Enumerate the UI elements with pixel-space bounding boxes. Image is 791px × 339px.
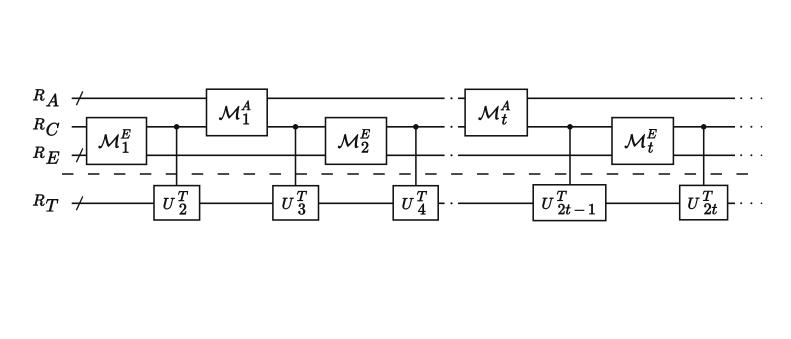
- gate label M1A: [219, 101, 250, 125]
- gate box M1A: [207, 89, 268, 136]
- gate box M1E: [87, 118, 147, 165]
- wire label R_E: [33, 147, 59, 164]
- gate label U2t1: [543, 191, 595, 214]
- control dot 2 on R_C: [293, 124, 299, 130]
- gate box U2t: [680, 185, 728, 219]
- wire label R_A: [33, 89, 58, 106]
- R_C wire trailing cdots: [740, 126, 742, 128]
- gate label U2: [164, 191, 188, 214]
- gate label M1E: [99, 129, 131, 152]
- control dot 4 on R_C: [567, 124, 573, 130]
- control line 1 (from R_C control dot down to target gate): [176, 127, 178, 186]
- gate label U2t: [688, 191, 716, 214]
- control line 3 (from R_C control dot down to target gate): [415, 127, 417, 186]
- R_T multi-qubit slash mark: [76, 196, 82, 210]
- control line 5 (from R_C control dot down to target gate): [703, 127, 705, 186]
- gate box U2t-1: [533, 185, 606, 221]
- R_C wire (left segment): [72, 126, 445, 128]
- R_A wire trailing cdots: [740, 97, 742, 99]
- control dot 1 on R_C: [174, 124, 180, 130]
- R_C wire mid-ellipsis dot: [450, 126, 452, 128]
- R_E wire mid-ellipsis dot: [450, 154, 452, 156]
- R_T wire mid-ellipsis dot: [450, 202, 452, 204]
- gate label U4: [403, 191, 427, 214]
- R_T wire (right segment): [458, 202, 735, 204]
- R_E multi-qubit slash mark: [76, 148, 82, 162]
- R_T wire (left segment): [72, 202, 445, 204]
- R_A wire mid-ellipsis dot: [450, 97, 452, 99]
- R_E wire (right segment): [458, 154, 735, 156]
- R_C wire (right segment): [458, 126, 735, 128]
- control line 4 (from R_C control dot down to target gate): [569, 127, 571, 185]
- gate box MtE: [612, 118, 673, 165]
- control dot 5 on R_C: [701, 124, 707, 130]
- gate box U2: [154, 186, 200, 220]
- gate box U3: [273, 186, 319, 220]
- wire label R_T: [33, 195, 58, 212]
- R_A wire (right segment): [458, 97, 735, 99]
- R_E wire trailing cdots: [740, 154, 742, 156]
- control dot 3 on R_C: [413, 124, 419, 130]
- control line 2 (from R_C control dot down to target gate): [295, 127, 297, 186]
- gate label MtA: [479, 101, 510, 125]
- gate label MtE: [625, 129, 657, 152]
- gate box M2E: [326, 118, 387, 165]
- R_E wire (left segment): [72, 154, 445, 156]
- gate box U4: [393, 186, 438, 220]
- R_A wire (left segment): [72, 97, 445, 99]
- gate label U3: [283, 191, 307, 214]
- dashed separator line between system and target registers: [62, 173, 748, 175]
- R_A multi-qubit slash mark: [76, 91, 82, 105]
- wire label R_C: [33, 118, 59, 135]
- R_T wire trailing cdots: [740, 202, 742, 204]
- gate label M2E: [338, 129, 370, 152]
- gate box MtA: [465, 89, 527, 136]
